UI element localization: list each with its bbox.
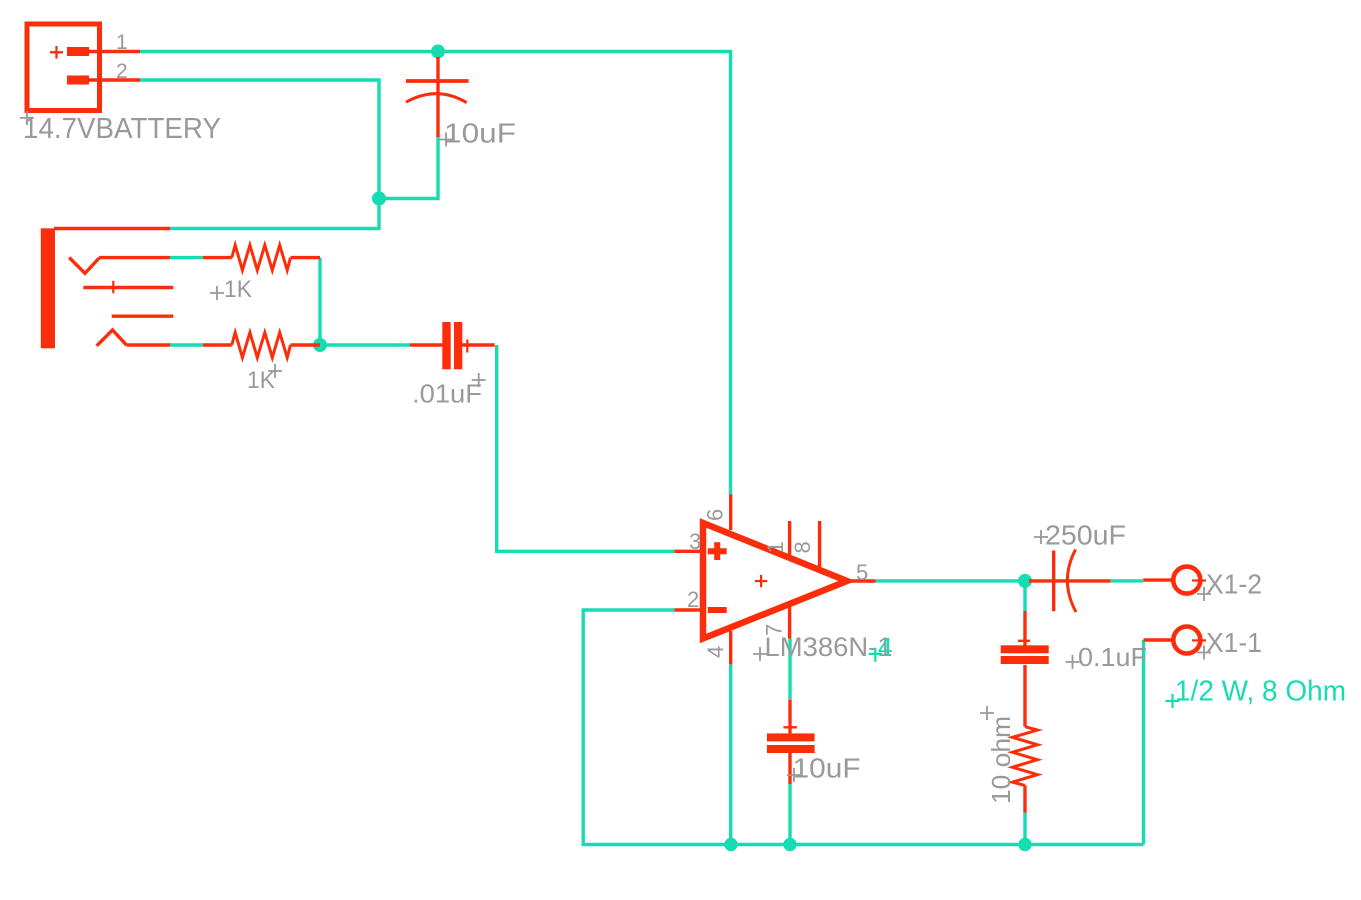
svg-text:2: 2 — [687, 587, 699, 612]
svg-text:3: 3 — [689, 529, 701, 554]
svg-text:10 ohm: 10 ohm — [986, 716, 1016, 804]
svg-text:8: 8 — [790, 541, 815, 553]
svg-text:1K: 1K — [224, 276, 252, 303]
svg-text:6: 6 — [703, 509, 728, 521]
svg-text:0.1uF: 0.1uF — [1078, 642, 1147, 672]
svg-text:X1-2: X1-2 — [1206, 569, 1262, 600]
svg-text:X1-1: X1-1 — [1206, 627, 1262, 658]
svg-text:10uF: 10uF — [793, 752, 861, 783]
svg-text:1: 1 — [763, 541, 788, 553]
svg-text:.01uF: .01uF — [412, 379, 482, 409]
svg-text:2: 2 — [116, 60, 128, 83]
svg-text:14.7VBATTERY: 14.7VBATTERY — [23, 113, 221, 145]
svg-text:7: 7 — [762, 624, 787, 636]
svg-text:1/2 W, 8 Ohm: 1/2 W, 8 Ohm — [1175, 676, 1346, 708]
svg-text:10uF: 10uF — [444, 118, 516, 149]
svg-text:1: 1 — [116, 31, 128, 54]
svg-text:5: 5 — [856, 560, 868, 585]
svg-text:250uF: 250uF — [1045, 519, 1126, 550]
svg-text:4: 4 — [703, 646, 728, 658]
svg-text:4: 4 — [878, 632, 892, 662]
